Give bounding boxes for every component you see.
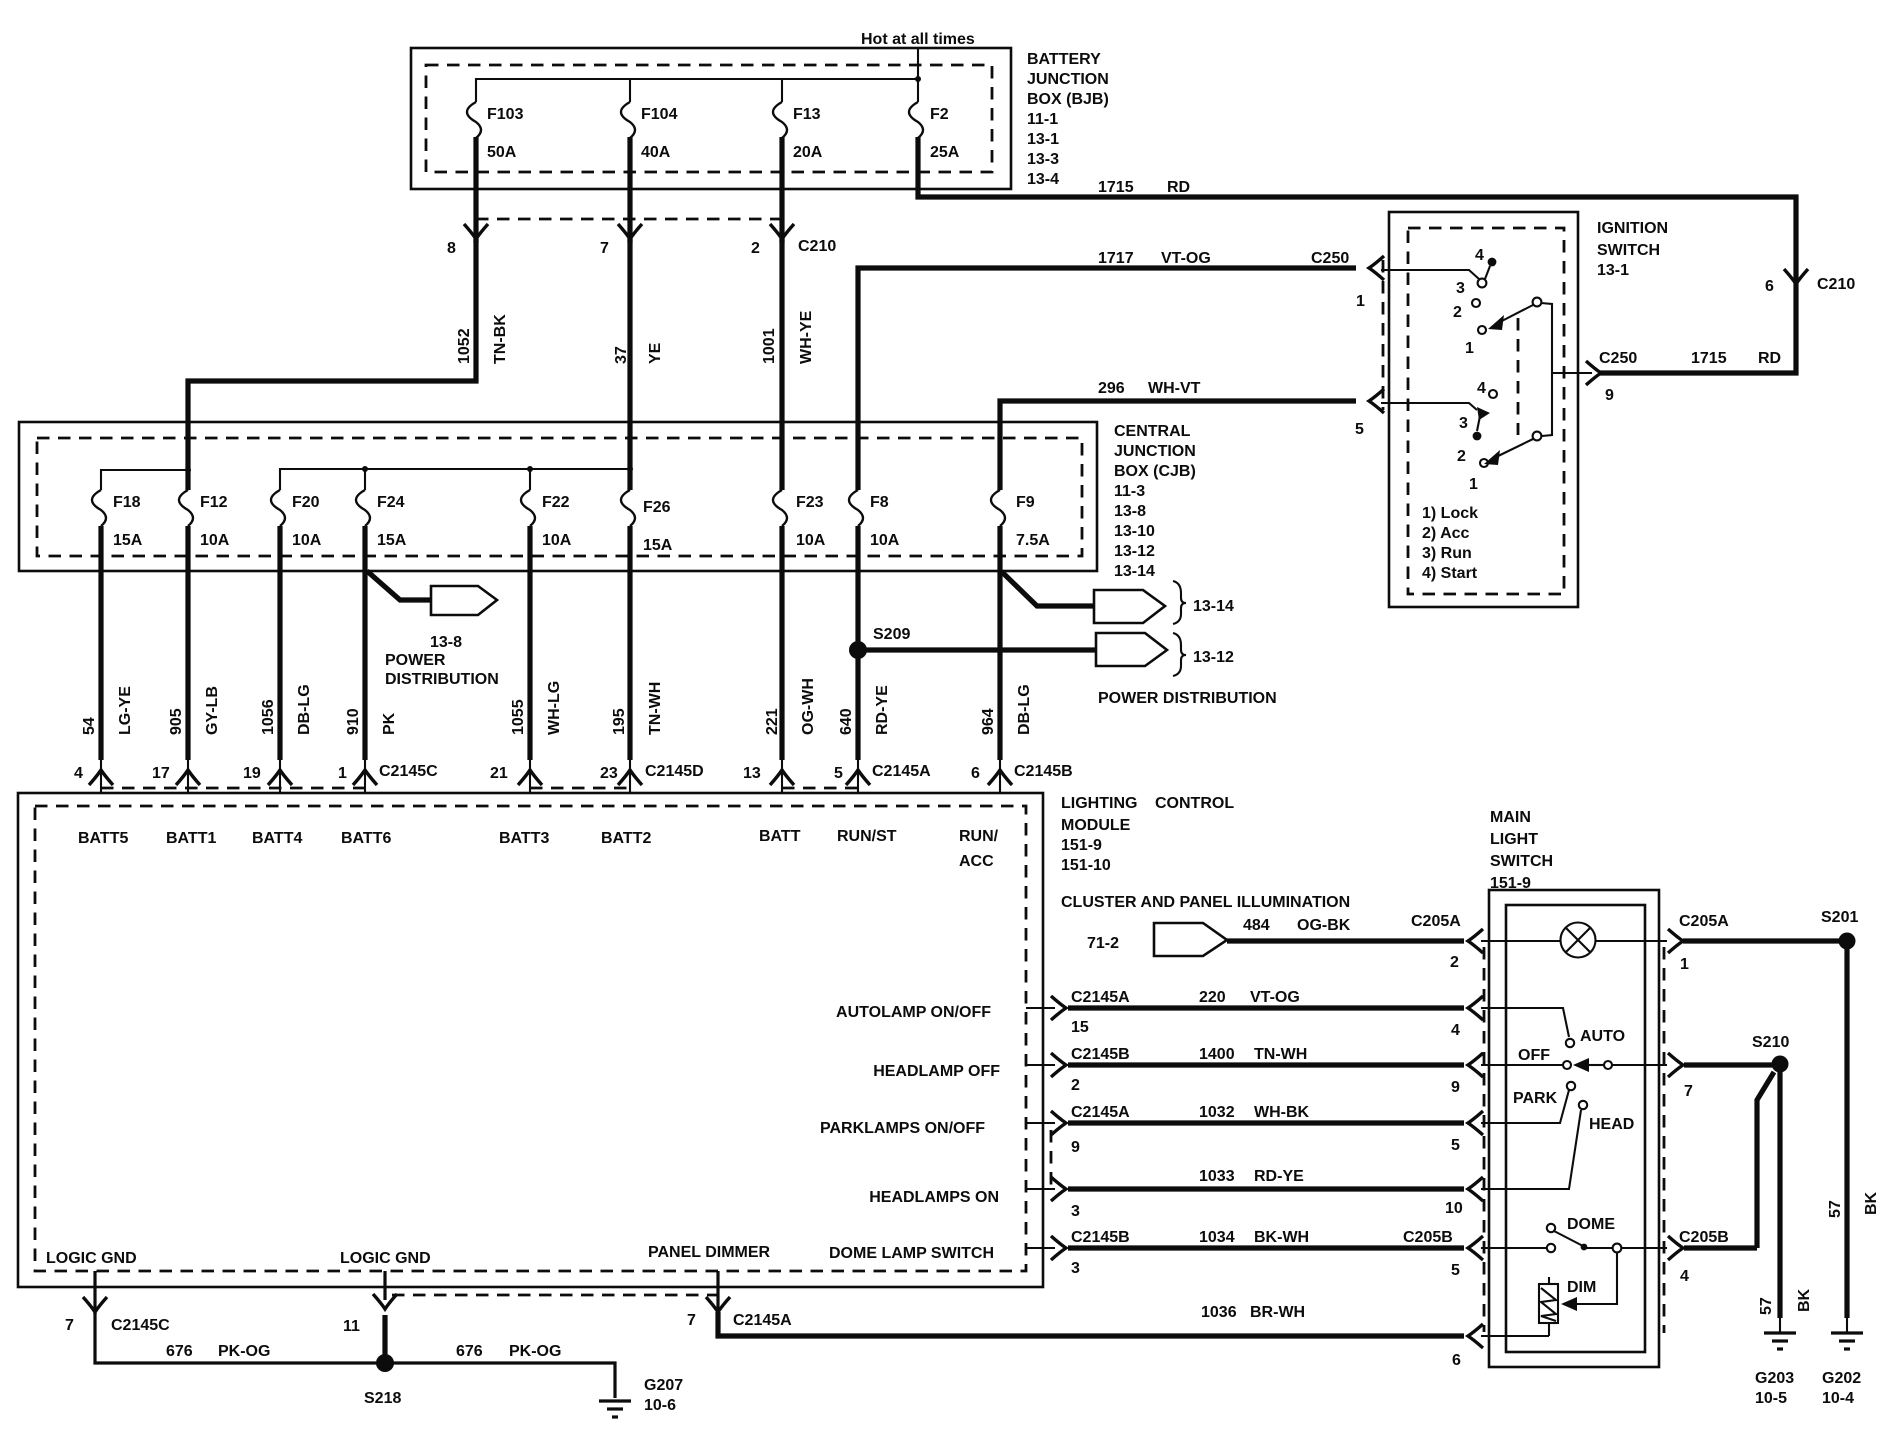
wire F24 to 13-8 power distribution tap	[367, 571, 432, 600]
wire to AUTO contact	[1481, 1008, 1569, 1037]
wire 1052 TN-BK to CJB F12	[188, 239, 476, 490]
fuse F12 10A	[179, 490, 193, 526]
wire 640 RD-YE F8 to LCM RUN/ST	[855, 526, 860, 760]
wire 1056 DB-LG F20 to LCM BATT4	[277, 526, 282, 760]
svg-text:PK-OG: PK-OG	[509, 1343, 561, 1360]
pin 4 C2145C	[89, 770, 113, 785]
svg-text:2: 2	[1450, 954, 1459, 971]
svg-text:17: 17	[152, 765, 170, 782]
svg-text:13-1: 13-1	[1027, 131, 1059, 148]
svg-text:C2145B: C2145B	[1014, 763, 1073, 780]
fuse F104 40A	[621, 102, 635, 138]
lighting control module LCM box	[18, 793, 1043, 1287]
wire F13 output	[779, 137, 784, 243]
spring return arrow bottom	[1533, 432, 1542, 441]
svg-text:1001: 1001	[761, 328, 778, 364]
svg-text:2: 2	[1457, 448, 1466, 465]
fuse F22 10A	[521, 490, 535, 526]
svg-text:Hot at all times: Hot at all times	[861, 31, 975, 48]
svg-text:C2145A: C2145A	[1071, 989, 1130, 1006]
svg-text:40A: 40A	[641, 144, 671, 161]
svg-text:13-8: 13-8	[430, 634, 462, 651]
fuse F26 15A	[621, 490, 635, 526]
svg-text:OFF: OFF	[1518, 1047, 1550, 1064]
svg-text:13-1: 13-1	[1597, 262, 1629, 279]
wire 1400 TN-WH row (HEADLAMP OFF)	[1026, 1064, 1055, 1066]
svg-text:WH-LG: WH-LG	[546, 681, 563, 735]
svg-text:DB-LG: DB-LG	[296, 684, 313, 735]
svg-text:HEADLAMPS ON: HEADLAMPS ON	[869, 1189, 999, 1206]
connector C205A dashed line right	[1663, 947, 1666, 1333]
wire 1036 BR-WH panel dimmer to DIM	[718, 1312, 1464, 1336]
svg-text:3: 3	[1459, 415, 1468, 432]
svg-text:484: 484	[1243, 917, 1270, 934]
svg-text:RUN/ST: RUN/ST	[837, 828, 897, 845]
svg-text:JUNCTION: JUNCTION	[1027, 71, 1109, 88]
svg-text:GY-LB: GY-LB	[204, 686, 221, 735]
wire 910 PK F24 to LCM BATT6	[362, 526, 367, 760]
fuse F20 10A	[271, 490, 285, 526]
svg-text:DB-LG: DB-LG	[1016, 684, 1033, 735]
contact PARK	[1481, 1090, 1569, 1123]
svg-text:G202: G202	[1822, 1370, 1861, 1387]
connector C2145C dashed line	[101, 787, 366, 790]
svg-text:676: 676	[456, 1343, 483, 1360]
main light switch box	[1489, 890, 1659, 1367]
pin 6 C210 arrow	[1784, 269, 1808, 284]
svg-text:RD: RD	[1758, 350, 1781, 367]
svg-text:BATT4: BATT4	[252, 830, 302, 847]
svg-text:57: 57	[1758, 1297, 1775, 1315]
svg-text:JUNCTION: JUNCTION	[1114, 443, 1196, 460]
svg-text:13-10: 13-10	[1114, 523, 1155, 540]
svg-text:F104: F104	[641, 106, 678, 123]
ignition switch box	[1389, 212, 1578, 607]
svg-text:G203: G203	[1755, 1370, 1794, 1387]
ignition internal bar	[1541, 303, 1552, 436]
svg-text:C2145A: C2145A	[1071, 1104, 1130, 1121]
svg-text:7: 7	[65, 1317, 74, 1334]
fuse F23 10A	[773, 490, 787, 526]
svg-text:C2145C: C2145C	[111, 1317, 170, 1334]
svg-text:C2145C: C2145C	[379, 763, 438, 780]
pin 2 C210	[770, 224, 794, 239]
svg-text:LIGHTING: LIGHTING	[1061, 795, 1137, 812]
svg-text:1033: 1033	[1199, 1168, 1235, 1185]
node S201 splice	[1839, 933, 1856, 950]
svg-text:4: 4	[1451, 1022, 1460, 1039]
svg-text:C210: C210	[798, 238, 836, 255]
svg-text:S210: S210	[1752, 1034, 1789, 1051]
wire 1715 RD from F2 to ignition feed	[918, 137, 1796, 373]
svg-text:9: 9	[1605, 387, 1614, 404]
symbol 13-12 power distribution flag	[1096, 633, 1167, 666]
svg-text:MAIN: MAIN	[1490, 809, 1531, 826]
svg-text:F26: F26	[643, 499, 671, 516]
svg-text:IGNITION: IGNITION	[1597, 220, 1668, 237]
svg-text:9: 9	[1451, 1079, 1460, 1096]
wire F103 output	[473, 137, 478, 243]
svg-text:2: 2	[1453, 304, 1462, 321]
svg-text:OG-WH: OG-WH	[800, 678, 817, 735]
svg-text:F18: F18	[113, 494, 141, 511]
pin 5 C2145A	[846, 770, 870, 785]
svg-text:4: 4	[1475, 247, 1484, 264]
wire 1034 BK-WH row (DOME LAMP SWITCH)	[1026, 1247, 1055, 1249]
wire LOGIC GND pin 7 C2145C	[93, 1271, 96, 1315]
central junction box CJB	[19, 422, 1097, 571]
svg-text:8: 8	[447, 240, 456, 257]
svg-text:6: 6	[971, 765, 980, 782]
svg-text:5: 5	[1451, 1262, 1460, 1279]
node S209 splice	[849, 641, 867, 659]
svg-text:G207: G207	[644, 1377, 683, 1394]
connector C250 pin 5	[1369, 389, 1384, 413]
svg-text:DOME LAMP SWITCH: DOME LAMP SWITCH	[829, 1245, 994, 1262]
svg-text:BOX (BJB): BOX (BJB)	[1027, 91, 1109, 108]
svg-text:F22: F22	[542, 494, 570, 511]
lamp bulb symbol	[1561, 923, 1596, 958]
svg-text:BOX (CJB): BOX (CJB)	[1114, 463, 1196, 480]
svg-text:F24: F24	[377, 494, 405, 511]
svg-text:WH-BK: WH-BK	[1254, 1104, 1310, 1121]
svg-text:TN-WH: TN-WH	[647, 682, 664, 735]
wire 1717 VT-OG ignition to CJB F8	[858, 268, 1356, 490]
svg-text:9: 9	[1071, 1139, 1080, 1156]
svg-text:13-12: 13-12	[1193, 649, 1234, 666]
svg-text:C205B: C205B	[1403, 1229, 1453, 1246]
svg-text:10-5: 10-5	[1755, 1390, 1787, 1407]
contact HEAD	[1481, 1110, 1581, 1189]
svg-text:1: 1	[1469, 476, 1478, 493]
svg-text:11-3: 11-3	[1114, 483, 1145, 500]
svg-text:PK: PK	[381, 712, 398, 735]
wire 221 OG-WH F23 to LCM BATT	[779, 526, 784, 760]
svg-text:BATT1: BATT1	[166, 830, 216, 847]
svg-text:TN-WH: TN-WH	[1254, 1046, 1307, 1063]
wire 220 VT-OG row (AUTOLAMP)	[1026, 1007, 1055, 1009]
wire 1032 WH-BK row (PARKLAMPS)	[1026, 1122, 1055, 1124]
svg-text:PANEL DIMMER: PANEL DIMMER	[648, 1244, 771, 1261]
svg-text:LOGIC GND: LOGIC GND	[46, 1250, 137, 1267]
svg-text:BATT: BATT	[759, 828, 801, 845]
svg-text:1055: 1055	[510, 699, 527, 735]
svg-text:640: 640	[838, 708, 855, 735]
svg-text:13-14: 13-14	[1193, 598, 1234, 615]
connector C250 dashed line	[1382, 260, 1385, 410]
wire 296 WH-VT ignition to CJB F9	[1000, 401, 1356, 490]
svg-text:2: 2	[1071, 1077, 1080, 1094]
svg-text:15A: 15A	[377, 532, 407, 549]
svg-text:LOGIC GND: LOGIC GND	[340, 1250, 431, 1267]
svg-text:BR-WH: BR-WH	[1250, 1304, 1305, 1321]
svg-text:54: 54	[81, 717, 98, 735]
svg-text:15A: 15A	[643, 537, 673, 554]
svg-text:BATT3: BATT3	[499, 830, 549, 847]
svg-text:296: 296	[1098, 380, 1125, 397]
node bus junction dots	[185, 467, 191, 473]
svg-text:C2145A: C2145A	[872, 763, 931, 780]
svg-text:SWITCH: SWITCH	[1490, 853, 1553, 870]
svg-text:4: 4	[1477, 380, 1486, 397]
svg-text:11: 11	[343, 1318, 360, 1335]
svg-text:1032: 1032	[1199, 1104, 1235, 1121]
svg-text:1715: 1715	[1098, 179, 1134, 196]
fuse F13 20A	[773, 102, 787, 138]
svg-text:676: 676	[166, 1343, 193, 1360]
svg-text:20A: 20A	[793, 144, 823, 161]
LCM inner dashed border	[35, 806, 1026, 1271]
svg-text:5: 5	[1451, 1137, 1460, 1154]
svg-text:4) Start: 4) Start	[1422, 565, 1478, 582]
svg-text:HEAD: HEAD	[1589, 1116, 1634, 1133]
svg-text:POWER DISTRIBUTION: POWER DISTRIBUTION	[1098, 690, 1277, 707]
svg-text:151-10: 151-10	[1061, 857, 1111, 874]
svg-text:10A: 10A	[200, 532, 230, 549]
svg-text:HEADLAMP OFF: HEADLAMP OFF	[873, 1063, 1000, 1080]
svg-text:10: 10	[1445, 1200, 1463, 1217]
svg-text:910: 910	[345, 708, 362, 735]
ignition switch inner dashed border	[1408, 228, 1564, 594]
contact DOME	[1481, 1247, 1546, 1249]
svg-text:4: 4	[74, 765, 83, 782]
pin 17 C2145C	[176, 770, 200, 785]
ignition dashed divider	[1517, 318, 1520, 435]
svg-text:7: 7	[1684, 1083, 1693, 1100]
pin 1 C2145C	[353, 770, 377, 785]
svg-text:57: 57	[1827, 1200, 1844, 1218]
wire 1033 RD-YE row (HEADLAMPS ON)	[1026, 1188, 1055, 1190]
symbol 71-2 flag	[1154, 923, 1227, 956]
wire PANEL DIMMER pin 7 C2145A	[716, 1271, 719, 1315]
wire to S201	[1683, 938, 1845, 943]
svg-text:3) Run: 3) Run	[1422, 545, 1472, 562]
svg-text:C2145A: C2145A	[733, 1312, 792, 1329]
contact AUTO	[1566, 1039, 1574, 1047]
svg-text:1400: 1400	[1199, 1046, 1235, 1063]
wire 57 BK S210 to G203	[1777, 1064, 1782, 1318]
svg-text:2) Acc: 2) Acc	[1422, 525, 1470, 542]
svg-text:BATT2: BATT2	[601, 830, 651, 847]
svg-text:VT-OG: VT-OG	[1161, 250, 1211, 267]
fuse F103 50A	[467, 102, 481, 138]
svg-text:F103: F103	[487, 106, 524, 123]
svg-text:PK-OG: PK-OG	[218, 1343, 270, 1360]
svg-text:F20: F20	[292, 494, 320, 511]
svg-text:220: 220	[1199, 989, 1226, 1006]
wire DOME to DIM resistor	[1577, 1253, 1617, 1304]
svg-text:RD-YE: RD-YE	[874, 685, 891, 735]
node S218 splice	[376, 1354, 394, 1372]
svg-text:ACC: ACC	[959, 853, 994, 870]
svg-text:DOME: DOME	[1567, 1216, 1615, 1233]
svg-text:4: 4	[1680, 1268, 1689, 1285]
ground G203	[1779, 1318, 1781, 1333]
svg-text:50A: 50A	[487, 144, 517, 161]
fuse F24 15A	[356, 490, 370, 526]
BJB inner dashed border	[426, 65, 992, 172]
svg-text:19: 19	[243, 765, 261, 782]
svg-text:15: 15	[1071, 1019, 1089, 1036]
connector C205A dashed line left	[1483, 947, 1486, 1332]
wire 484 OG-BK row	[1227, 938, 1464, 943]
pin 13 C2145A	[770, 770, 794, 785]
ground G202	[1846, 1318, 1848, 1333]
svg-text:1036: 1036	[1201, 1304, 1237, 1321]
fuse F2 25A	[909, 102, 923, 138]
wire CJB bus F18-F12	[101, 470, 188, 490]
svg-text:3: 3	[1071, 1203, 1080, 1220]
svg-text:RD-YE: RD-YE	[1254, 1168, 1304, 1185]
svg-text:C205A: C205A	[1679, 913, 1729, 930]
svg-text:13-8: 13-8	[1114, 503, 1146, 520]
svg-text:1: 1	[1680, 956, 1689, 973]
svg-text:BATTERY: BATTERY	[1027, 51, 1101, 68]
svg-text:S201: S201	[1821, 909, 1858, 926]
wire F104 output	[627, 137, 632, 243]
svg-text:BATT5: BATT5	[78, 830, 128, 847]
svg-text:CLUSTER AND PANEL ILLUMINATION: CLUSTER AND PANEL ILLUMINATION	[1061, 894, 1350, 911]
svg-text:YE: YE	[647, 342, 664, 364]
svg-text:6: 6	[1765, 278, 1774, 295]
pin 19 C2145C	[268, 770, 292, 785]
svg-text:10-6: 10-6	[644, 1397, 676, 1414]
wire BJB internal bus	[476, 79, 918, 102]
pin 21 C2145D	[518, 770, 542, 785]
svg-text:25A: 25A	[930, 144, 960, 161]
resistor DIM	[1539, 1284, 1558, 1323]
svg-text:7: 7	[687, 1312, 696, 1329]
svg-text:7.5A: 7.5A	[1016, 532, 1050, 549]
brace 13-12	[1173, 633, 1186, 676]
svg-text:3: 3	[1071, 1260, 1080, 1277]
svg-text:BK: BK	[1863, 1191, 1880, 1215]
connector dashed line pin11-pin7	[392, 1294, 719, 1297]
connector C205A pin 1 arrow	[1668, 929, 1683, 953]
ignition switch wiper bank RUN/ST (bottom)	[1381, 403, 1477, 410]
svg-text:PARK: PARK	[1513, 1090, 1558, 1107]
svg-text:WH-YE: WH-YE	[798, 310, 815, 364]
svg-text:OG-BK: OG-BK	[1297, 917, 1351, 934]
svg-text:10-4: 10-4	[1822, 1390, 1854, 1407]
svg-text:1: 1	[1356, 293, 1365, 310]
svg-text:3: 3	[1456, 280, 1465, 297]
svg-text:F9: F9	[1016, 494, 1035, 511]
svg-text:C2145D: C2145D	[645, 763, 704, 780]
wire 1001 WH-YE to CJB F23	[779, 239, 784, 490]
svg-text:10A: 10A	[292, 532, 322, 549]
symbol 13-14 power distribution flag	[1094, 590, 1165, 623]
svg-text:10A: 10A	[542, 532, 572, 549]
svg-text:C250: C250	[1599, 350, 1637, 367]
connector C205B pin 4 arrow	[1668, 1236, 1683, 1260]
small dashed connector gap line	[1050, 1130, 1053, 1185]
battery junction box BJB	[411, 48, 1011, 189]
svg-text:BATT6: BATT6	[341, 830, 391, 847]
svg-text:WH-VT: WH-VT	[1148, 380, 1201, 397]
wire 676 PK-OG right to G207	[385, 1363, 615, 1398]
svg-text:13-14: 13-14	[1114, 563, 1155, 580]
svg-text:S218: S218	[364, 1390, 401, 1407]
svg-text:1034: 1034	[1199, 1229, 1235, 1246]
svg-text:TN-BK: TN-BK	[492, 314, 509, 364]
svg-text:13-12: 13-12	[1114, 543, 1155, 560]
svg-text:C205A: C205A	[1411, 913, 1461, 930]
wire 1055 WH-LG F22 to LCM BATT3	[527, 526, 532, 760]
svg-text:151-9: 151-9	[1490, 875, 1531, 892]
pin 8 C210	[464, 224, 488, 239]
wire S209 to 13-12 power distribution tap	[858, 647, 1097, 652]
svg-text:LIGHT: LIGHT	[1490, 831, 1538, 848]
wire S210 branch to C205B	[1757, 1072, 1774, 1248]
svg-text:10A: 10A	[870, 532, 900, 549]
svg-text:5: 5	[834, 765, 843, 782]
brace 13-14	[1173, 581, 1186, 624]
svg-text:BK-WH: BK-WH	[1254, 1229, 1309, 1246]
svg-text:905: 905	[168, 708, 185, 735]
svg-text:1: 1	[338, 765, 347, 782]
wire F9 to 13-14 power distribution tap	[1002, 572, 1095, 606]
wire 905 GY-LB F12 to LCM BATT1	[185, 526, 190, 760]
svg-text:MODULE: MODULE	[1061, 817, 1131, 834]
wire CJB bus F20-F26	[280, 469, 630, 490]
connector C2145D dashed line	[530, 787, 632, 790]
svg-text:RD: RD	[1167, 179, 1190, 196]
fuse F8 10A	[849, 490, 863, 526]
connector pin 7 arrow to S210	[1668, 1053, 1683, 1077]
svg-text:5: 5	[1355, 421, 1364, 438]
svg-text:SWITCH: SWITCH	[1597, 242, 1660, 259]
spring return arrow top	[1533, 298, 1542, 307]
svg-text:2: 2	[751, 240, 760, 257]
svg-text:1715: 1715	[1691, 350, 1727, 367]
svg-text:AUTOLAMP ON/OFF: AUTOLAMP ON/OFF	[836, 1004, 991, 1021]
pin 6 C2145B	[988, 770, 1012, 785]
wire 964 DB-LG F9 to LCM RUN/ACC	[997, 526, 1002, 760]
svg-text:AUTO: AUTO	[1580, 1028, 1625, 1045]
svg-text:PARKLAMPS ON/OFF: PARKLAMPS ON/OFF	[820, 1120, 985, 1137]
svg-text:CENTRAL: CENTRAL	[1114, 423, 1191, 440]
CJB inner dashed border	[37, 438, 1082, 556]
svg-text:11-1: 11-1	[1027, 111, 1058, 128]
svg-text:23: 23	[600, 765, 618, 782]
svg-text:POWER: POWER	[385, 652, 446, 669]
connector C210 dashed line	[476, 218, 782, 221]
connector C205A pin 2 arrow	[1468, 929, 1483, 953]
wire 676 PK-OG left	[95, 1312, 380, 1363]
svg-text:1056: 1056	[260, 699, 277, 735]
svg-text:6: 6	[1452, 1352, 1461, 1369]
svg-text:C2145B: C2145B	[1071, 1229, 1130, 1246]
connector C2145A dashed line	[782, 787, 858, 790]
svg-text:1: 1	[1465, 340, 1474, 357]
svg-text:1052: 1052	[456, 328, 473, 364]
wire 195 TN-WH F26 to LCM BATT2	[627, 526, 632, 760]
svg-text:10A: 10A	[796, 532, 826, 549]
svg-text:13-3: 13-3	[1027, 151, 1059, 168]
svg-text:RUN/: RUN/	[959, 828, 999, 845]
svg-text:S209: S209	[873, 626, 910, 643]
pin 7 C210	[618, 224, 642, 239]
svg-text:15A: 15A	[113, 532, 143, 549]
svg-text:CONTROL: CONTROL	[1155, 795, 1234, 812]
svg-text:C210: C210	[1817, 276, 1855, 293]
pin 23 C2145D	[618, 770, 642, 785]
svg-text:C2145B: C2145B	[1071, 1046, 1130, 1063]
svg-text:F2: F2	[930, 106, 949, 123]
svg-text:F12: F12	[200, 494, 228, 511]
svg-text:LG-YE: LG-YE	[117, 686, 134, 735]
